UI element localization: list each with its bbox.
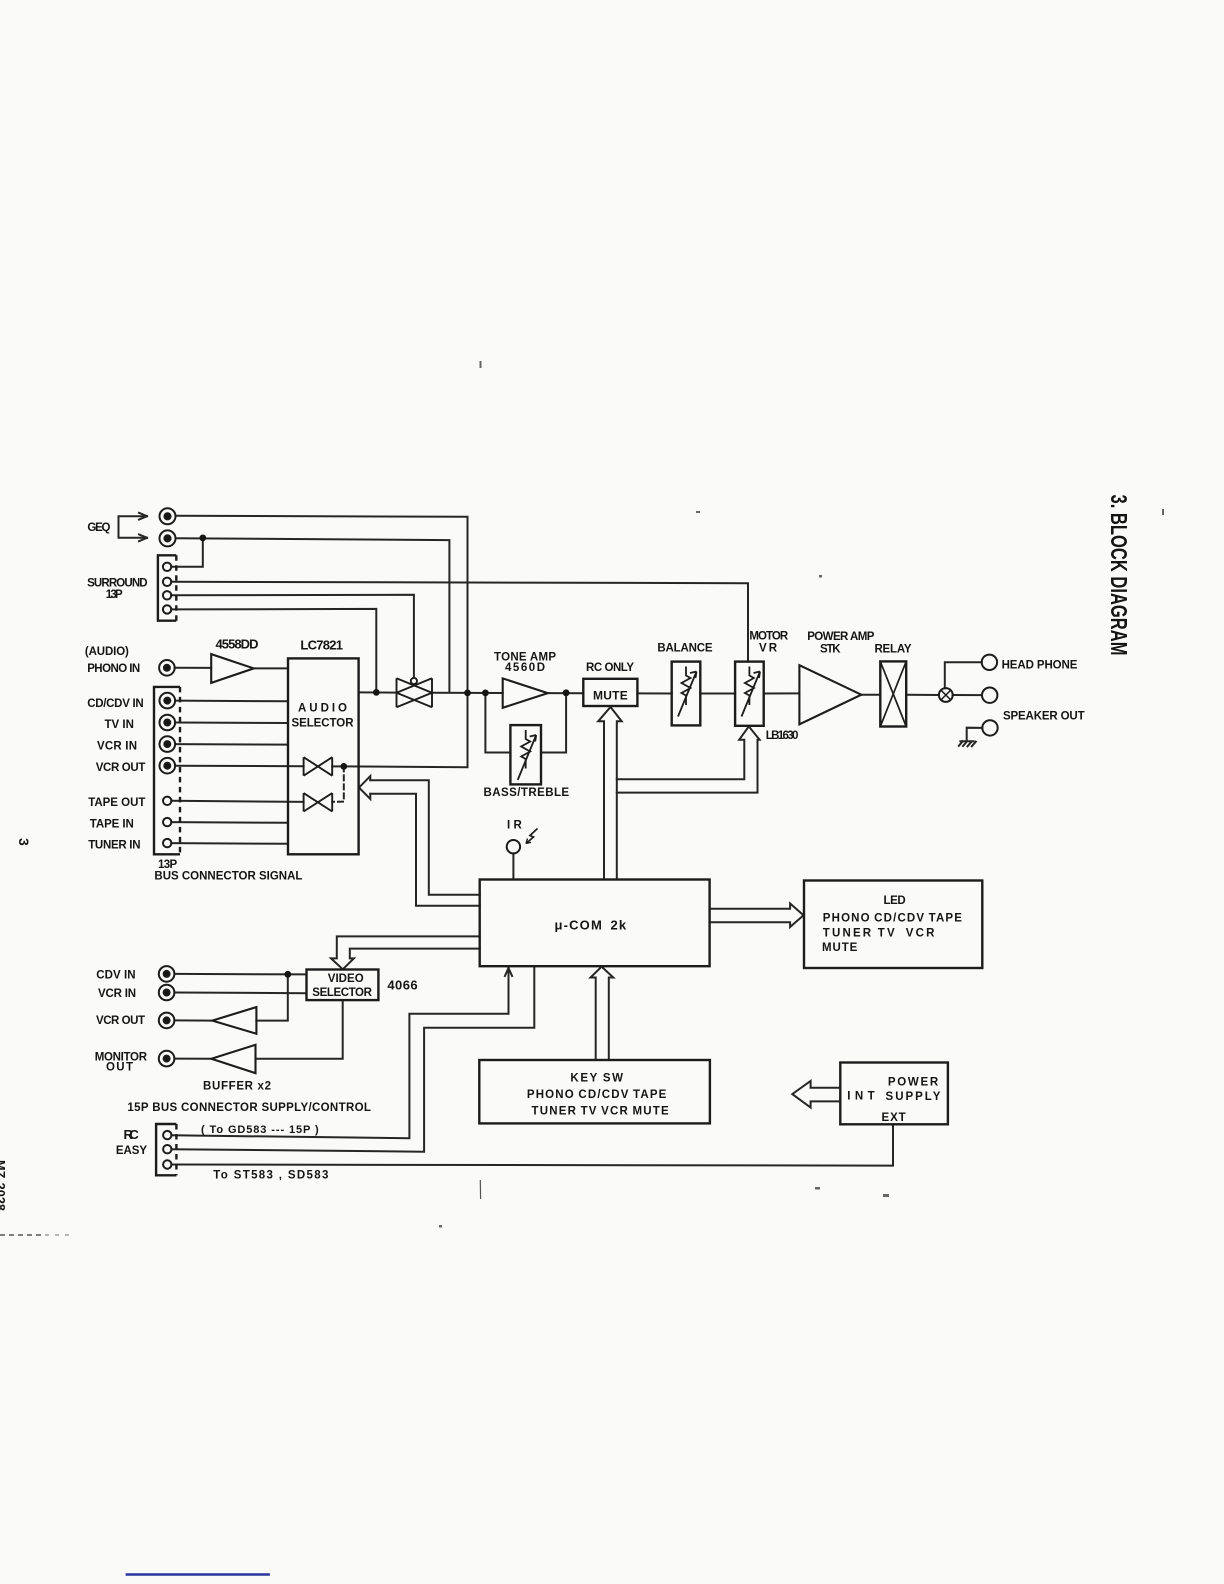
svg-text:IR: IR	[507, 820, 522, 832]
svg-text:VCR OUT: VCR OUT	[96, 1015, 145, 1027]
svg-text:( To GD583 --- 15P ): ( To GD583 --- 15P )	[201, 1124, 319, 1136]
svg-text:VR: VR	[759, 643, 778, 655]
svg-text:TUNER TV VCR MUTE: TUNER TV VCR MUTE	[532, 1106, 670, 1118]
svg-text:POWER: POWER	[888, 1077, 939, 1089]
svg-text:PHONO CD/CDV TAPE: PHONO CD/CDV TAPE	[823, 913, 962, 925]
svg-text:KEY SW: KEY SW	[570, 1073, 623, 1085]
svg-text:EXT: EXT	[882, 1112, 906, 1124]
svg-text:TV IN: TV IN	[105, 719, 134, 731]
svg-text:VCR IN: VCR IN	[97, 741, 137, 753]
svg-text:HEAD PHONE: HEAD PHONE	[1002, 659, 1078, 671]
svg-text:MZ-2028: MZ-2028	[0, 1160, 8, 1211]
svg-text:PHONO CD/CDV TAPE: PHONO CD/CDV TAPE	[527, 1089, 667, 1101]
svg-text:BUFFER x2: BUFFER x2	[203, 1081, 271, 1093]
svg-text:AUDIO: AUDIO	[298, 703, 347, 715]
svg-text:BASS/TREBLE: BASS/TREBLE	[484, 787, 570, 799]
svg-text:SELECTOR: SELECTOR	[292, 718, 355, 730]
svg-text:EASY: EASY	[116, 1145, 147, 1157]
svg-text:μ-COM 2k: μ-COM 2k	[555, 918, 627, 933]
svg-text:4066: 4066	[387, 978, 417, 993]
svg-text:SPEAKER OUT: SPEAKER OUT	[1003, 711, 1085, 723]
svg-text:TUNER TV VCR: TUNER TV VCR	[823, 928, 935, 940]
svg-text:3. BLOCK DIAGRAM: 3. BLOCK DIAGRAM	[1106, 495, 1132, 656]
svg-text:RC ONLY: RC ONLY	[586, 662, 634, 674]
svg-text:MUTE: MUTE	[822, 942, 858, 954]
svg-text:MOTOR: MOTOR	[749, 630, 788, 642]
svg-text:4558DD: 4558DD	[216, 637, 259, 652]
svg-text:GEQ: GEQ	[87, 522, 110, 534]
svg-text:SELECTOR: SELECTOR	[312, 987, 372, 999]
svg-text:TUNER IN: TUNER IN	[88, 840, 140, 852]
svg-text:STK: STK	[820, 643, 841, 655]
svg-text:MUTE: MUTE	[593, 689, 628, 703]
svg-text:PHONO IN: PHONO IN	[87, 663, 140, 675]
svg-text:CDV IN: CDV IN	[96, 970, 135, 982]
svg-text:VCR IN: VCR IN	[98, 988, 136, 1000]
svg-text:4560D: 4560D	[505, 662, 545, 674]
svg-text:To ST583 , SD583: To ST583 , SD583	[213, 1170, 328, 1182]
svg-text:LB1630: LB1630	[766, 730, 799, 742]
svg-text:CD/CDV IN: CD/CDV IN	[87, 698, 144, 710]
svg-text:VCR OUT: VCR OUT	[96, 762, 146, 774]
svg-text:OUT: OUT	[106, 1062, 133, 1074]
svg-text:13P: 13P	[106, 589, 123, 601]
svg-text:BALANCE: BALANCE	[657, 642, 713, 654]
svg-text:3: 3	[16, 838, 32, 846]
svg-text:VIDEO: VIDEO	[328, 973, 364, 985]
svg-text:TAPE OUT: TAPE OUT	[88, 797, 145, 809]
svg-text:(AUDIO): (AUDIO)	[85, 646, 129, 658]
svg-text:RC: RC	[124, 1127, 140, 1142]
svg-text:LC7821: LC7821	[300, 638, 343, 653]
svg-text:LED: LED	[884, 895, 906, 907]
svg-text:13P: 13P	[158, 859, 178, 871]
svg-text:BUS CONNECTOR SIGNAL: BUS CONNECTOR SIGNAL	[154, 871, 302, 883]
svg-text:SURROUND: SURROUND	[87, 577, 148, 589]
svg-text:15P BUS CONNECTOR SUPPLY/CONTR: 15P BUS CONNECTOR SUPPLY/CONTROL	[127, 1102, 371, 1114]
svg-text:POWER AMP: POWER AMP	[807, 631, 875, 643]
svg-text:TAPE IN: TAPE IN	[90, 818, 134, 830]
svg-text:RELAY: RELAY	[874, 644, 911, 656]
